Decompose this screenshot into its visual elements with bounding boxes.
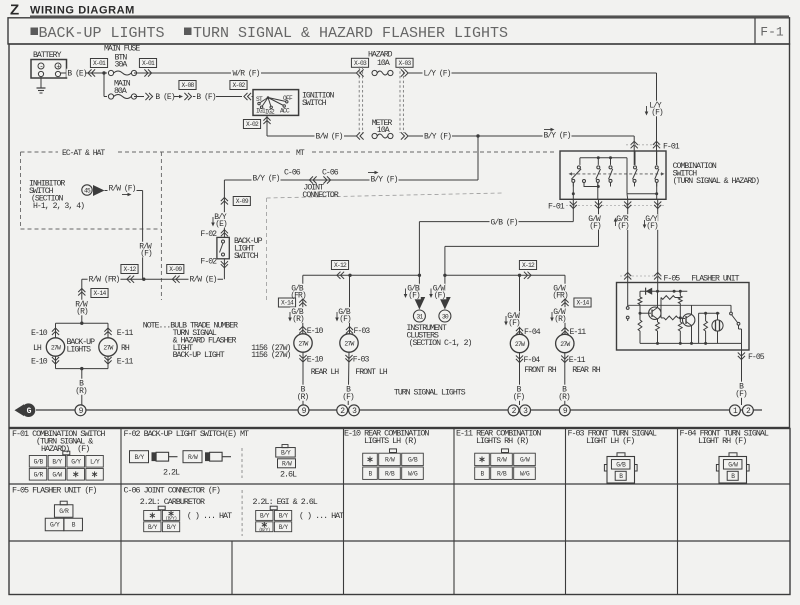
svg-text:MT: MT bbox=[296, 149, 305, 158]
svg-text:E-10: E-10 bbox=[307, 327, 324, 336]
svg-text:F-1: F-1 bbox=[760, 25, 784, 40]
svg-text:X-03: X-03 bbox=[354, 60, 367, 67]
svg-text:27W: 27W bbox=[515, 341, 525, 348]
svg-text:E-10: E-10 bbox=[31, 358, 48, 367]
svg-text:10A: 10A bbox=[377, 59, 390, 68]
svg-text:F-02: F-02 bbox=[200, 258, 217, 267]
svg-text:(SECTION C-1, 2): (SECTION C-1, 2) bbox=[409, 338, 472, 348]
svg-text:F-02: F-02 bbox=[200, 230, 217, 239]
svg-text:BACK-UP LIGHTS: BACK-UP LIGHTS bbox=[39, 25, 165, 42]
svg-text:B: B bbox=[481, 470, 485, 477]
svg-text:2.6L: 2.6L bbox=[280, 470, 297, 480]
svg-text:(R): (R) bbox=[297, 393, 309, 402]
svg-text:G/W: G/W bbox=[520, 457, 530, 464]
svg-text:G/B: G/B bbox=[34, 458, 44, 465]
svg-text:(F): (F) bbox=[589, 222, 601, 231]
svg-text:G/Y: G/Y bbox=[71, 458, 81, 465]
svg-text:X-09: X-09 bbox=[169, 266, 182, 273]
svg-text:B/Y (F): B/Y (F) bbox=[253, 175, 280, 184]
svg-text:R/W: R/W bbox=[497, 457, 507, 464]
svg-text:27W: 27W bbox=[298, 340, 308, 347]
svg-text:G/W: G/W bbox=[728, 461, 738, 468]
svg-text:2.2L: CARBURETOR: 2.2L: CARBURETOR bbox=[140, 497, 205, 507]
svg-text:G/B: G/B bbox=[616, 461, 626, 468]
svg-text:F-05: F-05 bbox=[748, 353, 765, 362]
svg-text:REAR RH: REAR RH bbox=[572, 366, 601, 375]
svg-text:R/W: R/W bbox=[385, 457, 395, 464]
svg-text:X-08: X-08 bbox=[181, 82, 194, 89]
svg-text:BATTERY: BATTERY bbox=[33, 51, 62, 60]
svg-text:(R): (R) bbox=[292, 315, 304, 324]
svg-text:F-04: F-04 bbox=[524, 356, 541, 365]
svg-text:B (E): B (E) bbox=[67, 70, 86, 79]
svg-text:G/B: G/B bbox=[408, 457, 418, 464]
svg-text:SWITCH: SWITCH bbox=[234, 252, 259, 261]
svg-text:B: B bbox=[731, 473, 735, 480]
svg-text:2.2L: EGI & 2.6L: 2.2L: EGI & 2.6L bbox=[253, 497, 318, 507]
svg-text:(F): (F) bbox=[434, 292, 446, 301]
svg-text:B/Y: B/Y bbox=[52, 458, 62, 465]
svg-text:E-10: E-10 bbox=[31, 329, 48, 338]
svg-text:X-03: X-03 bbox=[398, 60, 411, 67]
svg-text:30A: 30A bbox=[115, 61, 128, 70]
svg-text:B/Y: B/Y bbox=[279, 513, 289, 520]
svg-text:REAR LH: REAR LH bbox=[311, 368, 340, 377]
svg-text:F-01: F-01 bbox=[663, 143, 680, 152]
svg-text:LIGHT RH (F): LIGHT RH (F) bbox=[698, 436, 746, 446]
svg-text:( ) ... HAT: ( ) ... HAT bbox=[187, 511, 232, 521]
svg-text:F-03: F-03 bbox=[354, 327, 371, 336]
svg-text:10A: 10A bbox=[377, 126, 390, 135]
svg-text:(F): (F) bbox=[342, 393, 354, 402]
svg-text:TURN SIGNAL LIGHTS: TURN SIGNAL LIGHTS bbox=[394, 389, 466, 398]
svg-text:(F): (F) bbox=[646, 222, 658, 231]
svg-text:-: - bbox=[39, 63, 43, 71]
svg-text:E-11: E-11 bbox=[570, 328, 587, 337]
svg-text:1156 (27W): 1156 (27W) bbox=[251, 350, 290, 360]
svg-text:B/W (F): B/W (F) bbox=[316, 133, 343, 142]
svg-text:FRONT RH: FRONT RH bbox=[524, 366, 557, 375]
svg-text:E-11: E-11 bbox=[117, 329, 134, 338]
svg-text:80A: 80A bbox=[114, 87, 127, 96]
svg-text:C-06: C-06 bbox=[284, 169, 301, 178]
svg-text:EC-AT & HAT: EC-AT & HAT bbox=[62, 149, 105, 158]
svg-text:31: 31 bbox=[416, 314, 423, 321]
svg-text:LIGHTS: LIGHTS bbox=[67, 346, 92, 355]
svg-text:X-09: X-09 bbox=[236, 198, 249, 205]
svg-text:G/R: G/R bbox=[34, 471, 44, 478]
svg-text:B/Y (F): B/Y (F) bbox=[371, 176, 398, 185]
svg-text:45: 45 bbox=[84, 188, 91, 195]
svg-text:Z: Z bbox=[10, 2, 19, 19]
svg-text:W/G: W/G bbox=[520, 470, 530, 477]
svg-text:(R): (R) bbox=[554, 315, 566, 324]
svg-text:HAZARD) (F): HAZARD) (F) bbox=[41, 444, 89, 454]
svg-text:R/W: R/W bbox=[282, 460, 292, 467]
svg-text:X-12: X-12 bbox=[334, 262, 347, 269]
svg-text:(F): (F) bbox=[617, 222, 629, 231]
svg-text:B/Y (F): B/Y (F) bbox=[544, 132, 571, 141]
svg-text:B: B bbox=[72, 522, 76, 529]
svg-text:RH: RH bbox=[121, 344, 130, 353]
svg-text:B/Y: B/Y bbox=[281, 449, 291, 456]
svg-text:B/Y: B/Y bbox=[167, 524, 177, 531]
svg-text:MAIN FUSE: MAIN FUSE bbox=[104, 45, 140, 54]
svg-text:R/B: R/B bbox=[385, 470, 395, 477]
svg-text:B (F): B (F) bbox=[196, 93, 215, 102]
svg-text:X-02: X-02 bbox=[232, 82, 245, 89]
svg-text:30: 30 bbox=[442, 314, 449, 321]
svg-text:X-12: X-12 bbox=[522, 262, 535, 269]
svg-text:(F): (F) bbox=[339, 315, 351, 324]
svg-text:B/Y: B/Y bbox=[279, 524, 289, 531]
svg-text:G/W: G/W bbox=[52, 471, 62, 478]
svg-text:(F): (F) bbox=[508, 319, 520, 328]
svg-text:LIGHT LH (F): LIGHT LH (F) bbox=[586, 436, 634, 446]
svg-text:(R): (R) bbox=[75, 387, 87, 396]
svg-text:R/W: R/W bbox=[188, 454, 198, 461]
svg-text:H-1, 2, 3, 4): H-1, 2, 3, 4) bbox=[33, 201, 84, 211]
svg-text:F-05 FLASHER UNIT (F): F-05 FLASHER UNIT (F) bbox=[12, 486, 96, 496]
svg-text:C-06: C-06 bbox=[322, 169, 339, 178]
svg-text:(TURN SIGNAL & HAZARD): (TURN SIGNAL & HAZARD) bbox=[673, 176, 760, 186]
svg-text:W/G: W/G bbox=[408, 470, 418, 477]
svg-text:F-04: F-04 bbox=[524, 328, 541, 337]
svg-text:( ) ... HAT: ( ) ... HAT bbox=[299, 511, 344, 521]
svg-text:27W: 27W bbox=[560, 341, 570, 348]
svg-text:SWITCH: SWITCH bbox=[302, 99, 327, 108]
svg-text:G/B (F): G/B (F) bbox=[491, 218, 518, 227]
svg-text:R/B: R/B bbox=[497, 470, 507, 477]
svg-text:B/Y: B/Y bbox=[260, 513, 270, 520]
svg-text:LIGHTS LH (R): LIGHTS LH (R) bbox=[364, 436, 416, 446]
svg-text:X-02: X-02 bbox=[246, 121, 259, 128]
svg-text:+: + bbox=[56, 64, 60, 72]
svg-text:LH: LH bbox=[33, 344, 42, 353]
svg-text:L/Y (F): L/Y (F) bbox=[424, 70, 451, 79]
svg-text:BACK-UP LIGHT: BACK-UP LIGHT bbox=[173, 351, 225, 360]
svg-text:C-06 JOINT CONNECTOR (F): C-06 JOINT CONNECTOR (F) bbox=[124, 486, 220, 496]
svg-text:(R): (R) bbox=[76, 308, 88, 317]
svg-text:B: B bbox=[369, 470, 373, 477]
svg-text:ACC: ACC bbox=[280, 108, 290, 115]
svg-text:27W: 27W bbox=[103, 344, 113, 351]
svg-text:R/W (FR): R/W (FR) bbox=[89, 276, 120, 285]
svg-text:F-02 BACK-UP LIGHT SWITCH(E) M: F-02 BACK-UP LIGHT SWITCH(E) MT bbox=[124, 429, 250, 439]
svg-text:(R): (R) bbox=[558, 393, 570, 402]
svg-text:X-14: X-14 bbox=[576, 300, 589, 307]
svg-text:(F): (F) bbox=[651, 109, 663, 118]
svg-text:TURN SIGNAL & HAZARD FLASHER L: TURN SIGNAL & HAZARD FLASHER LIGHTS bbox=[193, 25, 508, 42]
svg-text:(F): (F) bbox=[513, 393, 525, 402]
svg-text:(F): (F) bbox=[408, 292, 420, 301]
svg-text:X-01: X-01 bbox=[93, 60, 106, 67]
svg-text:27W: 27W bbox=[344, 340, 354, 347]
svg-text:(E): (E) bbox=[215, 220, 227, 229]
svg-text:G/Y: G/Y bbox=[50, 522, 60, 529]
svg-text:R/W (F): R/W (F) bbox=[109, 185, 136, 194]
svg-text:X-14: X-14 bbox=[281, 300, 294, 307]
svg-text:(F): (F) bbox=[140, 250, 152, 259]
svg-text:E-10: E-10 bbox=[307, 356, 324, 365]
svg-text:B/Y: B/Y bbox=[135, 454, 145, 461]
svg-text:B/Y (F): B/Y (F) bbox=[424, 133, 451, 142]
svg-text:X-01: X-01 bbox=[142, 60, 155, 67]
svg-text:X-12: X-12 bbox=[123, 266, 136, 273]
svg-text:L/Y: L/Y bbox=[90, 458, 100, 465]
svg-text:B/Y: B/Y bbox=[148, 524, 158, 531]
svg-text:B (E): B (E) bbox=[155, 93, 174, 102]
svg-text:X-14: X-14 bbox=[93, 290, 106, 297]
svg-text:E-11: E-11 bbox=[117, 358, 134, 367]
svg-text:(F): (F) bbox=[735, 390, 747, 399]
svg-text:WIRING DIAGRAM: WIRING DIAGRAM bbox=[30, 5, 135, 17]
svg-text:W/R (F): W/R (F) bbox=[233, 70, 260, 79]
svg-text:27W: 27W bbox=[51, 344, 61, 351]
svg-text:FRONT LH: FRONT LH bbox=[355, 368, 388, 377]
svg-text:E-11: E-11 bbox=[569, 356, 586, 365]
svg-text:CONNECTOR: CONNECTOR bbox=[302, 191, 338, 200]
svg-text:F-03: F-03 bbox=[353, 356, 370, 365]
svg-text:G/R: G/R bbox=[59, 508, 69, 515]
svg-text:R/W (E): R/W (E) bbox=[190, 276, 217, 285]
svg-text:(B/Y): (B/Y) bbox=[166, 516, 177, 522]
svg-text:B: B bbox=[619, 473, 623, 480]
svg-text:F-01: F-01 bbox=[548, 203, 565, 212]
svg-text:LIGHTS RH (R): LIGHTS RH (R) bbox=[476, 436, 528, 446]
svg-text:(B/Y): (B/Y) bbox=[259, 527, 270, 533]
svg-text:IG2: IG2 bbox=[265, 109, 275, 116]
svg-text:2.2L: 2.2L bbox=[163, 468, 180, 478]
